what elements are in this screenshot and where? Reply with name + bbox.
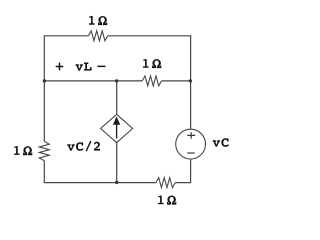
value label 1 ohm of R2 (left) [14,146,20,155]
polarity - mark of vL [98,66,106,68]
dependent current source U1 diamond [101,114,133,142]
wire middle horizontal [44,80,190,82]
wire middle vertical upper [116,81,118,114]
value label vC/2 of U1 [67,141,100,152]
resistor R1 1ohm top zigzag [88,31,107,41]
wire middle vertical lower [116,143,118,183]
value label 1 ohm of R1 (top) [89,16,95,25]
wire top horizontal [44,35,190,37]
arrow of U1 [113,117,119,138]
voltage source V1 circle [176,129,206,159]
value label 1 ohm of R3 (middle) [143,59,149,68]
value label 1 ohm of R4 (bottom) [158,195,164,204]
plus sign inside V1 [187,132,195,138]
wire right vertical upper [190,35,192,129]
resistor R3 1ohm middle zigzag [142,76,161,86]
junction node B (center, middle wire) [115,79,118,82]
junction node D (bottom wire) [115,181,118,184]
value label vC of V1 [213,138,229,147]
junction node C (right, middle wire) [189,79,192,82]
junction node A (left, middle wire) [43,79,46,82]
wire bottom horizontal [44,182,190,184]
polarity + and name vL label [56,62,92,70]
wire left vertical [43,35,45,183]
resistor R4 1ohm bottom zigzag [156,178,175,188]
resistor R2 1ohm left zigzag [39,141,49,160]
wire right vertical lower [190,159,192,183]
minus sign inside V1 [187,152,194,154]
